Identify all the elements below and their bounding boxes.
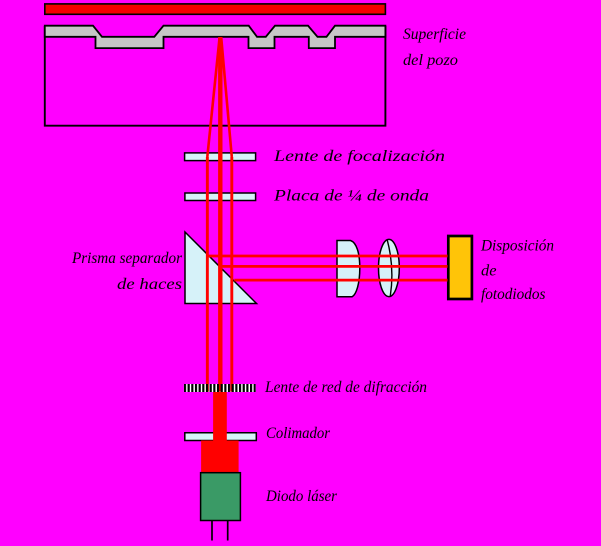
grating white base [184, 384, 256, 392]
svg-text:Disposición: Disposición [480, 238, 554, 255]
horizontal beam 1 [209, 255, 448, 258]
laser diode (green) [201, 473, 241, 521]
left side beam vertical [206, 157, 209, 392]
horizontal beam 2 [222, 265, 448, 268]
right converging beam [221, 37, 232, 157]
svg-text:del pozo: del pozo [403, 52, 458, 69]
diode leg left [211, 521, 213, 541]
disc substrate box [45, 26, 386, 126]
disc reflective layer (red bar) [45, 4, 386, 14]
svg-text:Lente de focalización: Lente de focalización [273, 148, 445, 165]
svg-text:Colimador: Colimador [266, 425, 331, 442]
svg-text:de: de [481, 262, 497, 279]
thick beam column below grating [213, 392, 227, 441]
horizontal beam 3 [234, 279, 447, 282]
center vertical beam [218, 37, 222, 392]
laser output block (red) [201, 441, 239, 473]
svg-text:de haces: de haces [117, 276, 182, 293]
quarter-wave plate bar [185, 193, 256, 201]
svg-text:fotodiodos: fotodiodos [481, 286, 546, 303]
lens 1 (D shape) [337, 241, 360, 297]
collimator bar [185, 433, 256, 441]
photodiode array (orange) [448, 236, 472, 299]
svg-text:Superficie: Superficie [403, 26, 466, 43]
svg-text:Diodo láser: Diodo láser [265, 488, 338, 505]
focusing lens bar [185, 153, 256, 161]
red beams [206, 37, 233, 392]
diode leg right [227, 521, 229, 541]
right side beam vertical [230, 157, 233, 392]
svg-text:Prisma separador: Prisma separador [71, 250, 183, 267]
lens 2 (ellipse) [379, 239, 400, 296]
beam splitter prism [185, 232, 257, 304]
left converging beam [207, 37, 219, 157]
svg-text:Lente de red de difracción: Lente de red de difracción [264, 379, 427, 396]
svg-text:Placa de ¼ de onda: Placa de ¼ de onda [273, 187, 429, 204]
pitted surface layer (gray) [45, 26, 386, 48]
